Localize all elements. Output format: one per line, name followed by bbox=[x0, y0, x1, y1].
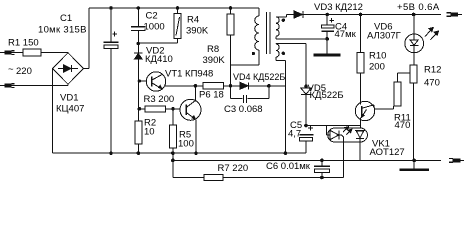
svg-text:C6 0.01мк: C6 0.01мк bbox=[266, 161, 311, 172]
svg-text:R12: R12 bbox=[424, 65, 441, 76]
svg-text:+5В 0.6А: +5В 0.6А bbox=[397, 2, 440, 13]
svg-text:~: ~ bbox=[8, 64, 14, 75]
svg-text:R4: R4 bbox=[187, 15, 199, 26]
svg-text:КД522Б: КД522Б bbox=[310, 90, 344, 101]
svg-text:47мк: 47мк bbox=[335, 29, 357, 40]
svg-text:VD1: VD1 bbox=[60, 93, 78, 104]
svg-text:R8: R8 bbox=[207, 44, 219, 55]
svg-text:220: 220 bbox=[16, 66, 32, 77]
svg-text:470: 470 bbox=[424, 78, 440, 89]
svg-text:R3 200: R3 200 bbox=[144, 94, 175, 105]
svg-text:C3 0.068: C3 0.068 bbox=[224, 104, 263, 115]
svg-text:390K: 390K bbox=[186, 26, 209, 37]
svg-text:VT1 КП948: VT1 КП948 bbox=[165, 69, 213, 80]
svg-text:C1: C1 bbox=[60, 13, 72, 24]
svg-text:390K: 390K bbox=[203, 55, 226, 66]
svg-text:1000: 1000 bbox=[144, 22, 165, 33]
svg-text:10мк 315В: 10мк 315В bbox=[38, 25, 87, 36]
svg-text:VD4 КД522Б: VD4 КД522Б bbox=[233, 72, 285, 82]
svg-text:10: 10 bbox=[144, 127, 155, 138]
svg-text:4,7: 4,7 bbox=[288, 129, 301, 140]
svg-text:100: 100 bbox=[178, 139, 194, 150]
svg-text:КД410: КД410 bbox=[145, 54, 173, 65]
svg-text:АЛ307Г: АЛ307Г bbox=[367, 31, 401, 42]
svg-text:АОТ127: АОТ127 bbox=[370, 147, 405, 158]
svg-text:200: 200 bbox=[369, 62, 385, 73]
svg-text:C2: C2 bbox=[146, 11, 158, 22]
svg-text:R7 220: R7 220 bbox=[218, 163, 249, 174]
svg-text:R1 150: R1 150 bbox=[8, 38, 39, 49]
svg-text:R10: R10 bbox=[369, 51, 386, 62]
svg-text:Р6 18: Р6 18 bbox=[199, 90, 224, 101]
svg-text:КЦ407: КЦ407 bbox=[56, 104, 84, 115]
svg-text:VD3 КД212: VD3 КД212 bbox=[314, 2, 363, 13]
svg-text:470: 470 bbox=[395, 120, 411, 131]
